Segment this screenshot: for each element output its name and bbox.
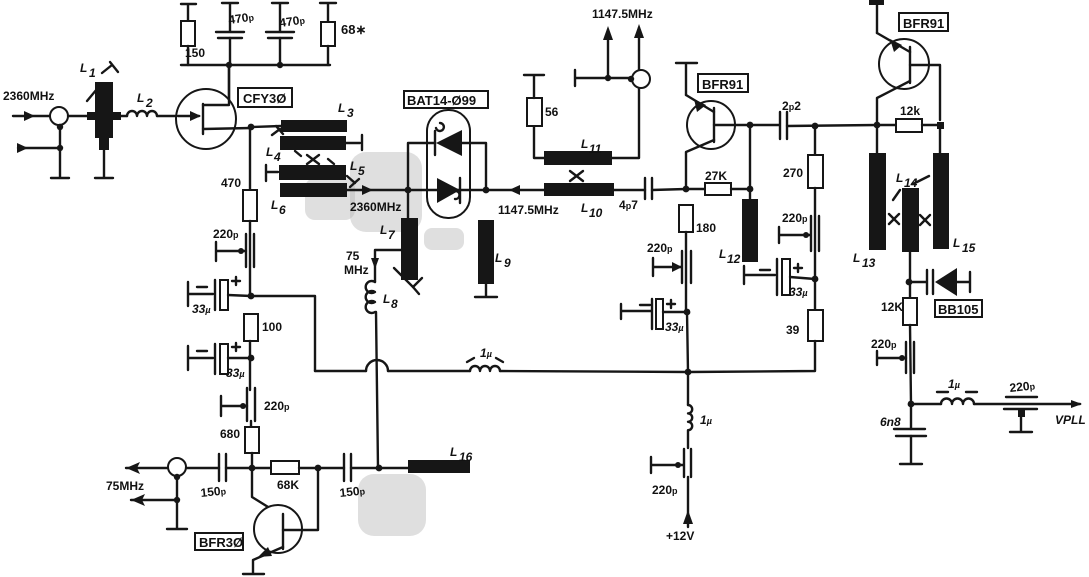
svg-text:1µ: 1µ <box>700 413 712 427</box>
svg-text:6: 6 <box>279 203 286 217</box>
svg-text:BFR3Ø: BFR3Ø <box>199 535 243 550</box>
svg-text:220p: 220p <box>264 399 290 413</box>
svg-text:12: 12 <box>727 252 741 266</box>
svg-text:15: 15 <box>962 241 976 255</box>
svg-text:68K: 68K <box>277 478 299 492</box>
svg-text:8: 8 <box>391 297 398 311</box>
svg-text:L: L <box>383 292 390 306</box>
svg-text:150: 150 <box>185 46 205 60</box>
svg-text:75: 75 <box>346 249 360 263</box>
svg-text:12k: 12k <box>900 104 920 118</box>
svg-text:1µ: 1µ <box>480 346 492 360</box>
svg-text:33µ: 33µ <box>665 320 684 334</box>
svg-text:33µ: 33µ <box>192 302 211 316</box>
svg-text:680: 680 <box>220 427 240 441</box>
svg-text:27K: 27K <box>705 169 727 183</box>
svg-text:MHz: MHz <box>344 263 369 277</box>
svg-text:75MHz: 75MHz <box>106 479 144 493</box>
svg-text:100: 100 <box>262 320 282 334</box>
svg-text:11: 11 <box>589 142 602 156</box>
svg-text:L: L <box>380 223 387 237</box>
svg-text:1147.5MHz: 1147.5MHz <box>592 7 653 21</box>
svg-text:2p2: 2p2 <box>782 99 801 113</box>
svg-text:L: L <box>581 137 588 151</box>
svg-text:VPLL: VPLL <box>1055 413 1086 427</box>
svg-text:33µ: 33µ <box>789 285 808 299</box>
svg-text:BFR91: BFR91 <box>903 16 944 31</box>
svg-text:BAT14-Ø99: BAT14-Ø99 <box>407 93 476 108</box>
svg-text:2360MHz: 2360MHz <box>350 200 401 214</box>
svg-text:220p: 220p <box>871 337 897 351</box>
svg-text:220p: 220p <box>652 483 678 497</box>
svg-text:L: L <box>853 251 860 265</box>
svg-text:L: L <box>271 198 278 212</box>
svg-text:L: L <box>80 61 87 75</box>
svg-text:2: 2 <box>145 96 153 110</box>
svg-text:220p: 220p <box>213 227 239 241</box>
svg-text:L: L <box>495 251 502 265</box>
svg-text:39: 39 <box>786 323 800 337</box>
svg-text:CFY3Ø: CFY3Ø <box>243 91 286 106</box>
svg-text:220p: 220p <box>647 241 673 255</box>
svg-text:9: 9 <box>504 256 511 270</box>
svg-text:+12V: +12V <box>666 529 694 543</box>
svg-text:56: 56 <box>545 105 559 119</box>
svg-text:68∗: 68∗ <box>341 22 366 37</box>
svg-text:1µ: 1µ <box>948 377 960 391</box>
svg-text:L: L <box>953 236 960 250</box>
svg-text:L: L <box>581 201 588 215</box>
svg-text:L: L <box>338 101 345 115</box>
svg-text:1: 1 <box>89 66 96 80</box>
svg-text:3: 3 <box>347 106 354 120</box>
svg-text:10: 10 <box>589 206 603 220</box>
svg-text:L: L <box>137 91 144 105</box>
svg-text:220p: 220p <box>782 211 808 225</box>
svg-text:L: L <box>450 445 457 459</box>
svg-text:12K: 12K <box>881 300 903 314</box>
svg-text:L: L <box>719 247 726 261</box>
svg-text:1147.5MHz: 1147.5MHz <box>498 203 559 217</box>
svg-text:BFR91: BFR91 <box>702 77 743 92</box>
svg-text:180: 180 <box>696 221 716 235</box>
svg-text:470: 470 <box>221 176 241 190</box>
svg-text:33µ: 33µ <box>226 366 245 380</box>
svg-text:5: 5 <box>358 164 365 178</box>
svg-text:4: 4 <box>273 150 281 164</box>
svg-text:L: L <box>266 145 273 159</box>
svg-text:L: L <box>896 171 903 185</box>
svg-text:L: L <box>350 159 357 173</box>
svg-text:16: 16 <box>459 450 473 464</box>
svg-text:4p7: 4p7 <box>619 198 638 212</box>
svg-text:BB105: BB105 <box>938 302 978 317</box>
svg-text:13: 13 <box>862 256 876 270</box>
svg-text:2360MHz: 2360MHz <box>3 89 54 103</box>
svg-text:270: 270 <box>783 166 803 180</box>
svg-text:6n8: 6n8 <box>880 415 901 429</box>
